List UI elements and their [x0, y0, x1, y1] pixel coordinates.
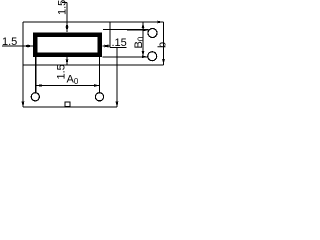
svg-text:.15: .15	[112, 37, 127, 49]
arrow A0 left	[36, 84, 42, 87]
wire right vertical extension line x110	[109, 22, 111, 48]
arrow right dim left	[103, 45, 109, 48]
arrow top dim down	[66, 27, 69, 33]
wire right 1.5 dimension line	[103, 45, 111, 47]
arrow A0 right	[94, 84, 100, 87]
wire top horizontal extension line	[23, 21, 164, 23]
arrow left dim right	[28, 45, 34, 48]
svg-text:1.5: 1.5	[57, 0, 69, 15]
sprocket hole D1	[148, 29, 157, 38]
sprocket hole D2	[148, 52, 157, 61]
svg-text:b: b	[157, 42, 169, 48]
arrow hole D2 leader	[142, 55, 148, 58]
arrow b dim corner down	[162, 59, 165, 65]
arrow b dim corner right	[158, 21, 164, 24]
arrow right dim right	[105, 45, 111, 48]
arrow top dim up	[66, 22, 69, 28]
arrow bottom left corner down	[22, 102, 25, 108]
wire B0 dimension line	[142, 22, 144, 57]
arrow bottom 1.5 dim down	[66, 59, 69, 65]
wire A0 dimension line	[36, 85, 100, 87]
arrow B0 up	[142, 22, 145, 28]
wire left vertical extension line	[22, 22, 24, 107]
component index square	[65, 102, 70, 107]
wire left 1.5 dimension line	[2, 45, 33, 47]
wire bottom 1.5 dimension line	[66, 57, 68, 66]
wire bottom right vertical line x117	[116, 48, 118, 108]
wire long lower horizontal extension line	[23, 64, 164, 66]
wire tick at top of dimension line	[62, 2, 67, 4]
wire A0 left extension line	[35, 57, 37, 93]
wire A0 right extension line	[99, 57, 101, 93]
sprocket hole D4	[95, 93, 103, 101]
wire leader to hole D1	[103, 29, 149, 31]
wire right text underline	[110, 47, 127, 49]
arrow hole D1 leader	[143, 29, 149, 32]
wire top 1.5 dimension line	[66, 3, 68, 33]
arrow left dim left	[23, 45, 29, 48]
wire pocket bottom extension to hole D2	[103, 56, 148, 58]
pocket outline P1	[35, 35, 100, 55]
sprocket hole D3	[31, 93, 39, 101]
wire right outer vertical b dimension line	[163, 22, 165, 65]
svg-text:1.5: 1.5	[2, 36, 17, 48]
arrow bottom right corner down	[116, 102, 119, 108]
wire bottom horizontal dimension line	[23, 106, 117, 108]
arrow B0 down	[142, 51, 145, 57]
